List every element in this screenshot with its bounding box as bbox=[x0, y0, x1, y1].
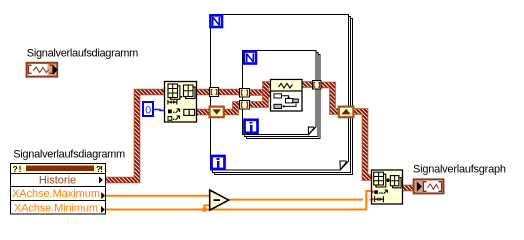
length input glyph bbox=[371, 197, 374, 202]
wire: Historie property to Initialize-Array icon (hatched) bbox=[106, 92, 166, 180]
svg-text:Signalverlaufsdiagramm: Signalverlaufsdiagramm bbox=[13, 149, 125, 161]
arrow bbox=[386, 179, 389, 183]
two squares bbox=[184, 109, 189, 115]
wire: up-arrow to Array-Subset node (hatched) bbox=[353, 112, 372, 178]
sub-VI icon bbox=[271, 80, 303, 112]
svg-text:?!: ?! bbox=[13, 164, 22, 174]
length glyph bbox=[168, 100, 177, 105]
index input glyph bbox=[371, 189, 374, 194]
inner loop folded corner bbox=[308, 126, 317, 135]
small grid with shadow bbox=[393, 178, 402, 188]
terminal: Signalverlaufsdiagramm chart control bbox=[27, 63, 58, 77]
svg-text:0: 0 bbox=[145, 104, 151, 116]
inner for-loop stacked frame 2 bbox=[245, 53, 319, 137]
N terminal inner loop bbox=[244, 52, 256, 64]
node: Array Subset icon bbox=[371, 170, 402, 204]
svg-text:XAchse.Maximum: XAchse.Maximum bbox=[12, 188, 100, 200]
constant 0 bbox=[143, 102, 153, 116]
tunnel: inner loop right bbox=[313, 81, 322, 90]
terminal: Signalverlaufsgraph indicator bbox=[414, 179, 444, 193]
inner for-loop main frame bbox=[243, 51, 317, 135]
outer loop folded corner bbox=[340, 160, 350, 171]
i terminal inner loop bbox=[245, 120, 258, 133]
tunnel: inner loop 2 bbox=[240, 101, 250, 110]
element-arrow glyph filled bbox=[168, 110, 172, 114]
tunnel: outer loop left bbox=[210, 88, 219, 97]
big array grid with shadow bbox=[170, 86, 180, 100]
wire: icon top output to inner tunnel 1 (hatched) bbox=[196, 89, 240, 96]
property node: Signalverlaufsdiagramm bbox=[11, 164, 106, 215]
subtract node bbox=[210, 190, 229, 210]
wire: inner right tunnel to up-arrow shift register (hatched) bbox=[320, 85, 339, 112]
svg-text:?!: ?! bbox=[96, 164, 103, 174]
i terminal outer loop bbox=[212, 156, 225, 169]
big array grid with shadow bbox=[376, 174, 386, 187]
dot between grids bbox=[181, 96, 183, 98]
class color bar bbox=[26, 166, 94, 172]
wire: Array-Subset output to graph terminal (hatched) bbox=[402, 185, 414, 192]
wire: branch of XAchse.Minimum to subtract lower input (orange) bbox=[205, 205, 211, 209]
N terminal outer loop bbox=[210, 15, 222, 27]
shift register up-arrow bbox=[339, 107, 354, 118]
element-arrow glyph open bbox=[168, 117, 172, 121]
small grid top right with shadow bbox=[186, 87, 196, 99]
svg-text:Signalverlaufsgraph: Signalverlaufsgraph bbox=[413, 164, 506, 176]
wire: XAchse.Maximum to subtract input (orange) bbox=[106, 195, 211, 197]
outer for-loop stacked frame 2 bbox=[213, 17, 351, 173]
tunnel: inner loop 1 bbox=[240, 89, 250, 98]
node: Initialize Array icon bbox=[165, 82, 197, 123]
wire: inner tunnel 1 to subVI input 1 (hatched) bbox=[249, 85, 272, 93]
wire: 0 constant to icon (blue) bbox=[153, 110, 165, 111]
junction dot bbox=[202, 207, 207, 212]
outer for-loop stacked frame 3 bbox=[215, 19, 353, 175]
wire: XAchse.Minimum to Array-Subset index input (orange) bbox=[106, 191, 373, 210]
wire: subVI output to inner right tunnel (hatched) bbox=[301, 81, 313, 88]
svg-text:Historie: Historie bbox=[39, 175, 76, 187]
svg-text:Signalverlaufsdiagramm: Signalverlaufsdiagramm bbox=[27, 48, 139, 60]
wire: subtract output to Array-Subset length input (orange, with crossing gap) bbox=[228, 199, 373, 201]
wire: icon lower output to shift register down-arrow (hatched) bbox=[196, 109, 210, 116]
shift register down-arrow bbox=[210, 107, 224, 118]
outer for-loop main frame bbox=[211, 15, 349, 171]
svg-text:XAchse.Minimum: XAchse.Minimum bbox=[14, 202, 98, 214]
wire: inner tunnel 2 to subVI input 2 (hatched) bbox=[249, 94, 272, 105]
wire: down-arrow to inner tunnel 2 (hatched) bbox=[223, 105, 240, 113]
inner for-loop stacked frame 3 bbox=[247, 55, 321, 139]
